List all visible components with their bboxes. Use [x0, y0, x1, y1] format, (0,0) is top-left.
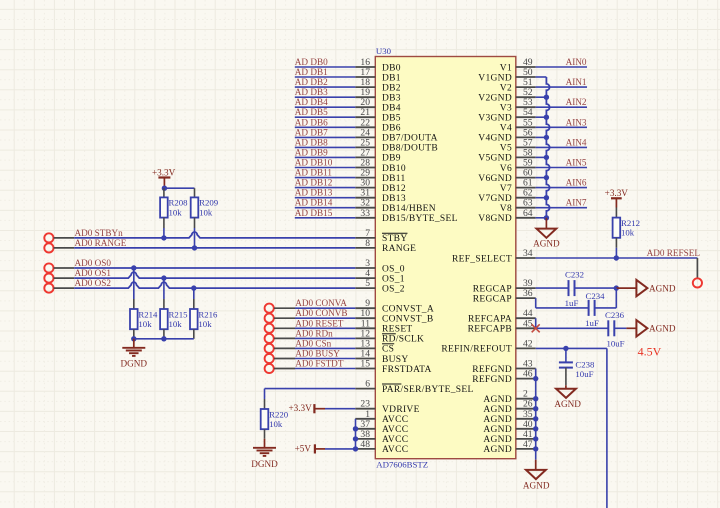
svg-text:AIN5: AIN5	[566, 158, 587, 168]
svg-text:DB10: DB10	[382, 164, 406, 174]
svg-text:RD/SCLK: RD/SCLK	[382, 335, 424, 345]
svg-text:AD DB15: AD DB15	[295, 208, 333, 218]
svg-text:STBY: STBY	[382, 234, 407, 244]
svg-text:AD DB6: AD DB6	[295, 117, 328, 127]
svg-text:OS_0: OS_0	[382, 264, 405, 274]
svg-text:R215: R215	[169, 309, 189, 319]
svg-text:V3: V3	[500, 104, 512, 114]
svg-text:AD DB1: AD DB1	[295, 67, 328, 77]
svg-text:10k: 10k	[269, 419, 283, 429]
svg-text:AGND: AGND	[483, 435, 512, 445]
svg-text:AD DB11: AD DB11	[295, 168, 333, 178]
svg-text:R216: R216	[198, 309, 218, 319]
svg-text:V5GND: V5GND	[478, 154, 512, 164]
svg-text:CONVST_B: CONVST_B	[382, 315, 434, 325]
svg-text:AD DB3: AD DB3	[295, 87, 328, 97]
svg-text:AVCC: AVCC	[382, 445, 408, 455]
svg-text:+5V: +5V	[295, 443, 312, 453]
svg-text:DB6: DB6	[382, 124, 401, 134]
svg-text:AD DB10: AD DB10	[295, 158, 333, 168]
svg-text:AD0 BUSY: AD0 BUSY	[295, 349, 340, 359]
svg-text:AD DB9: AD DB9	[295, 147, 328, 157]
svg-text:REGCAP: REGCAP	[473, 284, 512, 294]
svg-text:AD DB4: AD DB4	[295, 97, 328, 107]
svg-text:10k: 10k	[198, 319, 212, 329]
svg-text:C234: C234	[585, 291, 605, 301]
svg-text:AIN6: AIN6	[566, 178, 587, 188]
svg-text:AIN4: AIN4	[566, 137, 587, 147]
svg-text:DB5: DB5	[382, 114, 401, 124]
svg-text:AD0 CONVB: AD0 CONVB	[295, 308, 347, 318]
svg-text:45: 45	[523, 318, 533, 329]
svg-text:AIN2: AIN2	[566, 97, 587, 107]
svg-text:AGND: AGND	[523, 481, 550, 491]
svg-text:36: 36	[523, 288, 533, 299]
svg-text:+3.3V: +3.3V	[152, 168, 176, 178]
svg-text:15: 15	[360, 359, 370, 370]
svg-text:DB4: DB4	[382, 104, 401, 114]
svg-text:DGND: DGND	[121, 359, 148, 369]
svg-text:AIN7: AIN7	[566, 198, 587, 208]
svg-text:REGCAP: REGCAP	[473, 294, 512, 304]
svg-text:AD0 CSn: AD0 CSn	[295, 338, 331, 348]
svg-text:AIN0: AIN0	[566, 57, 587, 67]
svg-text:33: 33	[360, 208, 370, 219]
svg-text:FRSTDATA: FRSTDATA	[382, 365, 432, 375]
svg-text:DB8/DOUTB: DB8/DOUTB	[382, 144, 438, 154]
svg-text:U30: U30	[376, 46, 392, 56]
svg-text:AIN1: AIN1	[566, 77, 587, 87]
svg-text:34: 34	[523, 248, 533, 259]
svg-text:OS_1: OS_1	[382, 274, 405, 284]
svg-text:10uF: 10uF	[575, 369, 593, 379]
svg-text:R214: R214	[138, 309, 158, 319]
svg-text:AGND: AGND	[483, 395, 512, 405]
svg-text:V3GND: V3GND	[478, 114, 512, 124]
svg-text:CONVST_A: CONVST_A	[382, 305, 434, 315]
svg-text:6: 6	[365, 379, 370, 390]
svg-text:BUSY: BUSY	[382, 355, 409, 365]
svg-text:AVCC: AVCC	[382, 435, 408, 445]
svg-text:AGND: AGND	[483, 445, 512, 455]
svg-text:AD DB8: AD DB8	[295, 137, 328, 147]
svg-text:+3.3V: +3.3V	[288, 403, 312, 413]
svg-text:DB2: DB2	[382, 83, 401, 93]
svg-text:REFCAPB: REFCAPB	[468, 325, 512, 335]
svg-text:V2: V2	[500, 83, 512, 93]
svg-text:46: 46	[523, 369, 533, 380]
svg-text:AGND: AGND	[649, 324, 676, 334]
svg-text:DB11: DB11	[382, 174, 406, 184]
svg-text:AD0 RESET: AD0 RESET	[295, 318, 344, 328]
svg-text:AIN3: AIN3	[566, 117, 587, 127]
svg-text:AD DB12: AD DB12	[295, 178, 333, 188]
svg-text:REF_SELECT: REF_SELECT	[452, 254, 512, 264]
svg-text:DB1: DB1	[382, 73, 401, 83]
svg-text:AGND: AGND	[554, 399, 581, 409]
svg-text:AGND: AGND	[533, 238, 560, 248]
svg-text:V1GND: V1GND	[478, 73, 512, 83]
svg-text:DB3: DB3	[382, 94, 401, 104]
svg-text:C236: C236	[605, 310, 625, 320]
svg-text:R212: R212	[621, 218, 640, 228]
svg-text:AGND: AGND	[483, 415, 512, 425]
svg-text:AD0 REFSEL: AD0 REFSEL	[647, 248, 701, 258]
svg-text:REFGND: REFGND	[472, 365, 512, 375]
svg-text:1uF: 1uF	[565, 298, 579, 308]
svg-text:AVCC: AVCC	[382, 425, 408, 435]
svg-text:AD DB0: AD DB0	[295, 57, 328, 67]
svg-text:RESET: RESET	[382, 325, 413, 335]
svg-text:PAR/SER/BYTE_SEL: PAR/SER/BYTE_SEL	[382, 385, 474, 395]
svg-text:DB12: DB12	[382, 184, 406, 194]
svg-text:AD DB13: AD DB13	[295, 188, 333, 198]
svg-text:AD DB5: AD DB5	[295, 107, 328, 117]
svg-text:V8: V8	[500, 204, 512, 214]
svg-text:47: 47	[523, 439, 533, 450]
svg-text:V4GND: V4GND	[478, 134, 512, 144]
svg-text:AVCC: AVCC	[382, 415, 408, 425]
svg-text:10k: 10k	[199, 207, 213, 217]
svg-text:10k: 10k	[169, 319, 183, 329]
svg-text:AGND: AGND	[483, 405, 512, 415]
svg-text:C238: C238	[575, 359, 595, 369]
svg-text:V6GND: V6GND	[478, 174, 512, 184]
svg-text:AD0 RANGE: AD0 RANGE	[75, 238, 127, 248]
svg-text:DB9: DB9	[382, 154, 401, 164]
svg-text:V1: V1	[500, 63, 512, 73]
svg-text:C232: C232	[565, 270, 584, 280]
svg-text:DB14/HBEN: DB14/HBEN	[382, 204, 436, 214]
svg-text:AD DB7: AD DB7	[295, 127, 328, 137]
svg-text:DB15/BYTE_SEL: DB15/BYTE_SEL	[382, 214, 458, 224]
svg-text:DB7/DOUTA: DB7/DOUTA	[382, 134, 438, 144]
svg-text:1uF: 1uF	[585, 318, 599, 328]
svg-text:AD0 OS1: AD0 OS1	[75, 268, 112, 278]
svg-text:64: 64	[523, 208, 533, 219]
svg-text:V4: V4	[500, 124, 512, 134]
svg-text:8: 8	[365, 238, 370, 249]
svg-text:+3.3V: +3.3V	[605, 188, 629, 198]
svg-text:AGND: AGND	[483, 425, 512, 435]
svg-text:V8GND: V8GND	[478, 214, 512, 224]
svg-text:48: 48	[360, 439, 370, 450]
svg-text:V6: V6	[500, 164, 512, 174]
svg-text:RANGE: RANGE	[382, 244, 416, 254]
svg-text:AD7606BSTZ: AD7606BSTZ	[376, 459, 428, 469]
svg-text:DB13: DB13	[382, 194, 406, 204]
svg-text:V5: V5	[500, 144, 512, 154]
svg-text:10k: 10k	[621, 228, 635, 238]
svg-text:AD0 STBYn: AD0 STBYn	[75, 228, 124, 238]
svg-text:V2GND: V2GND	[478, 94, 512, 104]
svg-text:AD DB2: AD DB2	[295, 77, 328, 87]
svg-text:AD0 OS0: AD0 OS0	[75, 258, 112, 268]
svg-text:R208: R208	[169, 198, 189, 208]
svg-text:REFCAPA: REFCAPA	[468, 315, 512, 325]
svg-text:AD0 FSTDT: AD0 FSTDT	[295, 359, 344, 369]
svg-text:AD0 RDn: AD0 RDn	[295, 328, 333, 338]
svg-text:10k: 10k	[169, 207, 183, 217]
svg-text:VDRIVE: VDRIVE	[382, 405, 420, 415]
svg-text:10uF: 10uF	[606, 338, 624, 348]
svg-text:AGND: AGND	[649, 283, 676, 293]
svg-text:V7: V7	[500, 184, 512, 194]
svg-text:R220: R220	[269, 409, 289, 419]
svg-text:42: 42	[523, 338, 533, 349]
svg-text:V7GND: V7GND	[478, 194, 512, 204]
svg-text:10k: 10k	[138, 319, 152, 329]
svg-text:R209: R209	[199, 198, 219, 208]
svg-text:OS_2: OS_2	[382, 284, 405, 294]
svg-text:REFGND: REFGND	[472, 375, 512, 385]
svg-text:AD DB14: AD DB14	[295, 198, 333, 208]
svg-text:4.5V: 4.5V	[638, 345, 662, 359]
svg-text:CS: CS	[382, 345, 394, 355]
svg-text:DB0: DB0	[382, 63, 401, 73]
svg-text:AD0 OS2: AD0 OS2	[75, 278, 112, 288]
svg-text:5: 5	[365, 278, 370, 289]
svg-text:AD0 CONVA: AD0 CONVA	[295, 298, 347, 308]
svg-text:DGND: DGND	[251, 459, 278, 469]
svg-text:REFIN/REFOUT: REFIN/REFOUT	[441, 345, 512, 355]
